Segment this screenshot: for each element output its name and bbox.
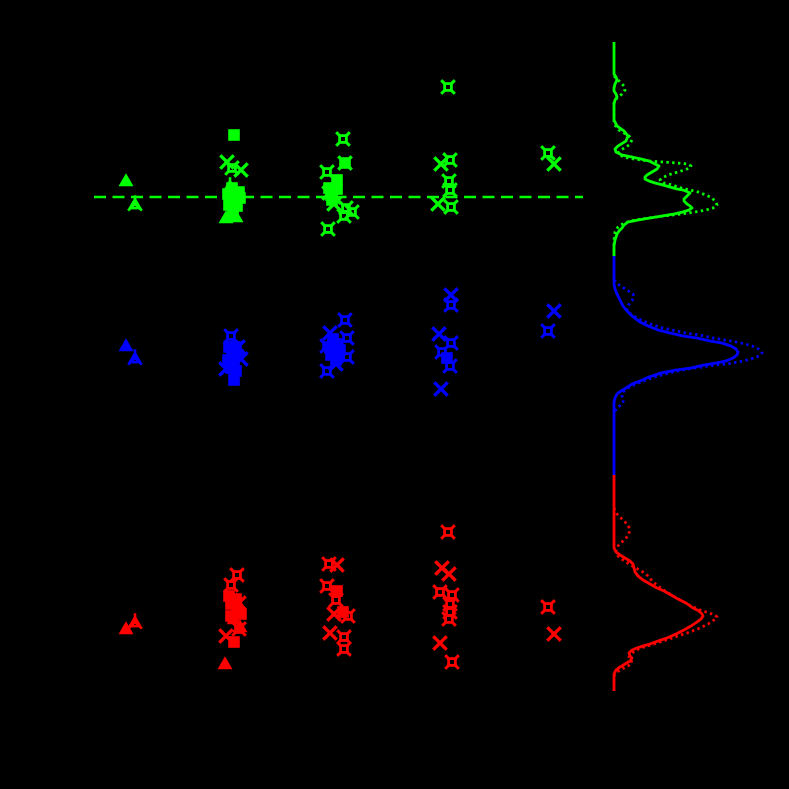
green scatter markers column 5 xyxy=(541,146,561,171)
green scatter markers column 2 xyxy=(219,129,248,223)
blue scatter markers column 1 xyxy=(119,338,142,364)
red density solid curve xyxy=(614,475,703,691)
red scatter markers column 4 xyxy=(433,525,459,669)
blue density dotted curve xyxy=(614,280,762,412)
red scatter markers column 5 xyxy=(541,600,561,641)
red scatter markers column 2 xyxy=(218,568,248,669)
green dashed threshold line xyxy=(94,196,583,199)
blue scatter markers column 3 xyxy=(320,313,354,378)
green density solid curve xyxy=(614,42,692,257)
green scatter markers column 1 xyxy=(119,173,142,210)
green scatter markers column 3 xyxy=(320,132,359,236)
red density dotted curve xyxy=(614,508,717,686)
red scatter markers column 1 xyxy=(119,613,142,634)
green density dotted curve xyxy=(614,76,717,256)
blue scatter markers column 2 xyxy=(219,329,247,386)
blue density solid curve xyxy=(614,256,738,475)
blue scatter markers column 4 xyxy=(432,288,458,395)
green scatter markers column 4 xyxy=(431,80,458,214)
blue scatter markers column 5 xyxy=(541,304,561,338)
red scatter markers column 3 xyxy=(320,557,355,656)
